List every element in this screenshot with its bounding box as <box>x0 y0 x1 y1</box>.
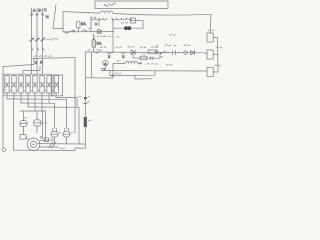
switch scribble <box>83 30 87 32</box>
fuse labels <box>10 90 54 93</box>
cable slash marks <box>49 142 56 148</box>
label R2 <box>216 47 222 48</box>
contact marks <box>173 50 176 54</box>
label N <box>79 95 81 98</box>
x75 vertical <box>74 58 76 133</box>
dark resistor on x85 <box>84 117 87 127</box>
title box <box>95 1 168 9</box>
motor feed verticals <box>43 111 46 141</box>
dark tick 1 on x85 <box>84 97 87 99</box>
chain scribble <box>101 47 106 48</box>
fuse FU2 dashed feed <box>94 35 113 37</box>
fuse unit 8 <box>54 76 58 94</box>
staircase wire y70.5 <box>23 67 40 75</box>
top bus <box>63 12 100 14</box>
right side series link <box>213 38 218 73</box>
rotor line long <box>38 143 85 145</box>
sub branch wire <box>133 52 160 58</box>
label near bus <box>167 64 172 67</box>
label scribble on y58 <box>34 56 52 57</box>
svg-text:C: C <box>44 7 47 12</box>
secondary right end drop <box>130 18 132 21</box>
fuse panel box left <box>3 74 52 96</box>
lamp label <box>122 22 128 23</box>
node C phase line <box>42 8 44 74</box>
transformer secondary left winding <box>91 18 107 20</box>
ground circle bottom left <box>2 148 6 152</box>
small box under bus <box>130 18 135 23</box>
label row scribble <box>47 38 59 40</box>
small loop on bus2 <box>112 75 114 77</box>
signal lamp circle <box>97 29 102 34</box>
junction dot <box>167 52 168 53</box>
KA label <box>25 117 27 120</box>
routing row y111 <box>20 110 46 112</box>
brake box <box>20 135 26 140</box>
coil line from x113 <box>113 63 125 65</box>
oval connector 2 <box>63 131 70 137</box>
svg-text:N: N <box>40 60 43 65</box>
secondary tap <box>98 18 100 26</box>
secondary mid drop <box>111 18 114 21</box>
motor top lines <box>40 139 54 141</box>
coil winding with arrow <box>125 62 138 64</box>
label 16 on bus2 <box>116 72 121 75</box>
hanger verticals x85 x91 <box>84 52 86 148</box>
wire chain to R2 <box>205 53 207 54</box>
node B phase line <box>36 8 38 74</box>
diode VD1 <box>131 50 135 55</box>
routing row y103 <box>21 102 55 104</box>
sub branch label <box>143 53 145 56</box>
routing row y107 <box>28 106 79 108</box>
fuse unit 5 <box>33 76 37 94</box>
shunt box on bus <box>102 68 105 70</box>
pilot lamp HL loop <box>131 21 143 29</box>
svg-text:N: N <box>46 14 49 19</box>
motor M <box>27 138 40 151</box>
wire left slant to edge <box>3 65 34 67</box>
long bus y70.6 to R3 <box>102 70 207 73</box>
junction node <box>112 31 113 32</box>
sub branch box <box>140 56 147 60</box>
label under lamp line <box>103 35 105 38</box>
x85 to bottom corner <box>75 148 85 150</box>
label R1 <box>208 30 214 31</box>
resistor R3 <box>207 67 213 76</box>
switch S1 <box>66 30 74 33</box>
transformer T primary <box>100 11 113 13</box>
label o below <box>161 56 163 59</box>
relay coil KA <box>20 121 27 127</box>
box bottom line <box>3 95 63 97</box>
chain labels above <box>116 47 122 48</box>
left edge vertical <box>2 67 4 149</box>
label N <box>89 27 91 30</box>
jog up x34 <box>33 58 35 64</box>
oval connector 1 <box>51 131 58 137</box>
bottom line y150 <box>14 149 76 151</box>
resistor box on chain <box>148 50 157 54</box>
KT label <box>42 122 47 125</box>
resistor R1 <box>207 33 213 42</box>
terminal circle <box>155 51 158 54</box>
dip switch SB0 <box>95 52 99 53</box>
chain label tick <box>88 49 90 52</box>
routing row y97.5 <box>56 98 77 108</box>
vertical x113 <box>112 21 114 52</box>
relay coil KT <box>34 120 42 126</box>
svg-text:5A: 5A <box>81 21 86 26</box>
sub branch ticks <box>151 57 154 60</box>
fuse unit 2 <box>12 76 16 94</box>
motor labels <box>41 137 43 140</box>
fuse unit 1 <box>5 76 9 94</box>
fuse unit 7 <box>47 76 51 94</box>
routing row y99 <box>7 98 67 100</box>
arrow on phase A <box>30 14 32 16</box>
bus3 y79 <box>135 75 152 79</box>
junction dot chain <box>112 52 113 53</box>
secondary left end drop <box>90 18 92 32</box>
svg-text:B: B <box>38 7 41 12</box>
fuse FU2 <box>92 40 96 48</box>
fuse marks row QS <box>30 38 35 41</box>
neutral wire from top (slanted) <box>53 5 63 29</box>
pilot lamp HL (dark double dot) <box>124 26 131 30</box>
label scribble <box>97 49 102 50</box>
arrow on phase C <box>41 14 43 16</box>
fuse FU1 <box>77 21 80 28</box>
x79 drop <box>78 107 80 143</box>
diode VD2 <box>191 50 195 55</box>
bus junction dot <box>87 12 88 13</box>
labels after coil <box>147 63 158 64</box>
small circle element <box>184 51 188 55</box>
wire y58 with labels <box>33 57 75 60</box>
chain right labels <box>156 45 158 48</box>
resistor R2 <box>207 50 213 59</box>
coil bottom stubs <box>23 127 25 135</box>
switch jog on C <box>43 48 45 50</box>
wire lamp to node <box>113 27 124 29</box>
dip switch SB2 <box>121 52 125 53</box>
rotor line 2 <box>40 146 59 148</box>
dip switch SB1 <box>107 52 111 53</box>
lamp circuit line y31.7 <box>63 31 113 33</box>
node A phase line <box>31 8 33 74</box>
oval labels <box>59 131 61 134</box>
stub wires below fuses <box>7 93 56 111</box>
label R3 <box>215 65 221 66</box>
right drop to R1 <box>209 14 212 33</box>
bus2 y75.5 <box>110 71 155 76</box>
fuse panel box right <box>53 75 63 96</box>
control chain line y52 <box>85 51 205 54</box>
arrow on phase B <box>36 14 38 16</box>
fuse unit 3 <box>19 76 23 94</box>
fuse unit 6 <box>40 76 44 94</box>
inner box left edge x63 <box>62 12 64 32</box>
left bottom vertical x13 <box>13 99 15 150</box>
switch jog on B <box>37 48 39 50</box>
label 16 <box>117 60 119 63</box>
switch jog on A <box>32 48 34 50</box>
title scribble <box>104 3 116 6</box>
svg-text:A: A <box>33 7 36 12</box>
fuse unit 4 <box>26 76 30 94</box>
transformer secondary right winding <box>112 18 131 20</box>
tick 2 on x85 <box>84 103 87 105</box>
svg-text:A: A <box>104 61 107 66</box>
knife switch <box>161 51 166 54</box>
svg-text:5A: 5A <box>97 41 102 46</box>
meter A <box>103 60 108 65</box>
motor line scribbles <box>40 136 53 138</box>
